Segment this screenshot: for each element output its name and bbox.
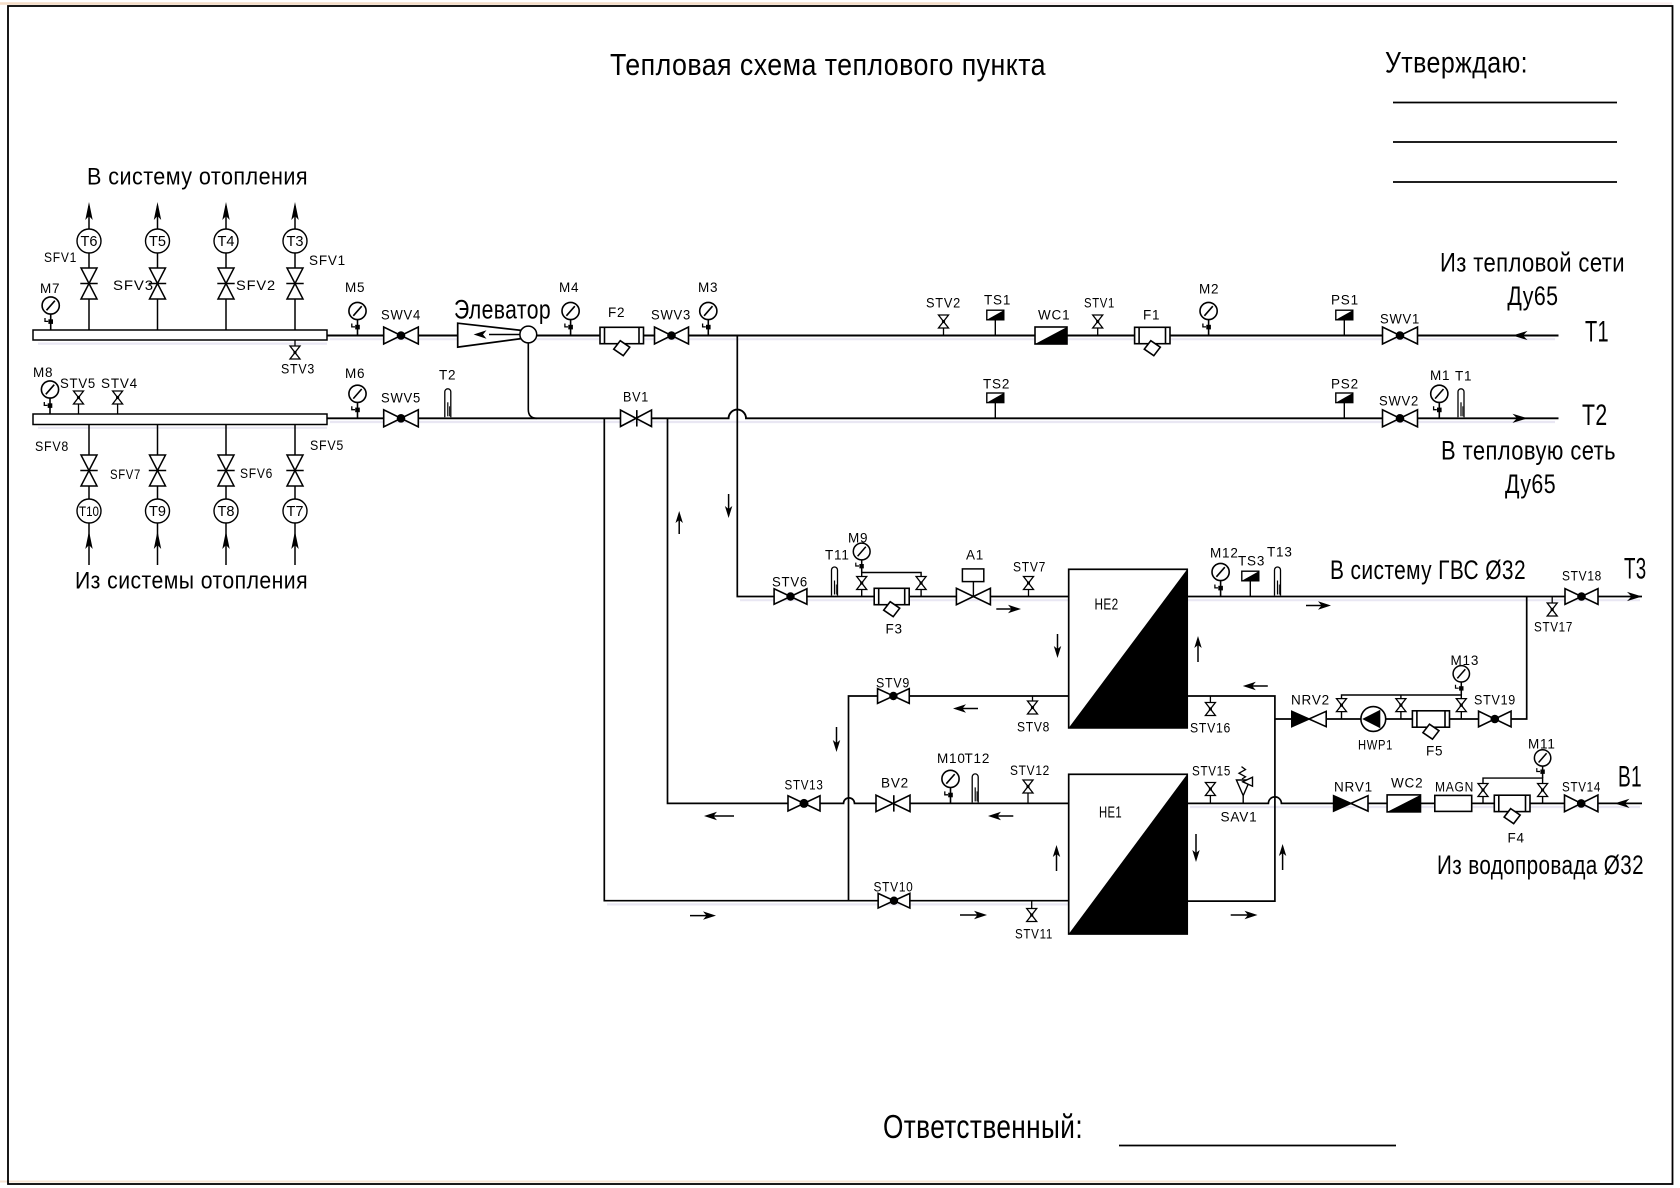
valve F4 bypass left small (1478, 784, 1488, 797)
svg-text:Ду65: Ду65 (1505, 469, 1556, 499)
valve F3 bypass right small (916, 577, 926, 590)
wire riser supply 1 (88, 206, 90, 330)
filter F1 (1135, 327, 1170, 355)
svg-text:NRV1: NRV1 (1334, 780, 1373, 795)
svg-text:NRV2: NRV2 (1291, 693, 1330, 708)
svg-text:SWV3: SWV3 (651, 308, 691, 323)
svg-text:SFV7: SFV7 (110, 467, 141, 482)
valve SFV riser return 3 (217, 455, 234, 486)
svg-text:STV18: STV18 (1562, 569, 1602, 584)
wire riser supply 3 (225, 206, 227, 330)
svg-text:SFV1: SFV1 (309, 253, 346, 268)
valve F3 bypass left small (857, 577, 867, 590)
svg-text:PS1: PS1 (1331, 293, 1359, 308)
svg-text:T4: T4 (218, 233, 235, 250)
wire HE2 lower right to HE1 right (1187, 696, 1275, 901)
filter F4 (1494, 795, 1530, 823)
filter F2 (600, 327, 644, 355)
sensor PS1 (1336, 310, 1353, 335)
svg-text:T10: T10 (79, 503, 99, 519)
valve STV8 small (1017, 696, 1050, 735)
svg-text:Ответственный:: Ответственный: (883, 1108, 1083, 1145)
svg-text:TS3: TS3 (1238, 554, 1265, 569)
svg-text:M10: M10 (937, 751, 966, 766)
gauge M4 (562, 302, 579, 335)
svg-text:STV9: STV9 (876, 676, 910, 691)
valve F4 bypass right small (1538, 784, 1548, 797)
svg-text:SFV3: SFV3 (113, 278, 154, 293)
valve STV4 small (101, 376, 138, 414)
wire drop T2 to bottom line (604, 418, 1068, 900)
thermometer T8 (214, 499, 238, 523)
gauge M12 (1212, 563, 1229, 596)
manifold bar return (33, 414, 327, 425)
flow arrow right on bottom line 2 (960, 911, 987, 919)
svg-text:STV8: STV8 (1017, 720, 1050, 735)
svg-text:STV11: STV11 (1015, 927, 1053, 942)
svg-text:M8: M8 (33, 365, 53, 380)
wire T3 DHW supply out (1187, 596, 1642, 598)
svg-text:SWV1: SWV1 (1380, 312, 1420, 327)
thermometer T13 well (1275, 567, 1281, 596)
flow arrow B1 in (1615, 799, 1630, 808)
svg-text:T12: T12 (965, 751, 991, 766)
magnetic unit MAGN (1435, 780, 1474, 812)
svg-text:BV1: BV1 (623, 390, 649, 405)
valve BV1 (621, 390, 652, 427)
svg-text:T8: T8 (218, 503, 235, 520)
flow arrow up left of HE1 (1053, 845, 1060, 871)
flow arrow down on HE2 left drop (833, 727, 840, 752)
signature line 2 (1393, 141, 1617, 143)
thermometer T2 well (445, 389, 451, 417)
check valve NRV1 (1334, 796, 1368, 811)
svg-text:Из системы отопления: Из системы отопления (75, 568, 308, 595)
flow arrow T3 out (1627, 592, 1642, 601)
heat exchanger HE1 (1069, 774, 1188, 934)
valve BV2 (876, 776, 910, 812)
flow arrow up right of HE2 (1194, 636, 1201, 662)
svg-text:B1: B1 (1618, 760, 1642, 793)
wire HE2 lower left line (849, 696, 1069, 901)
svg-text:M3: M3 (698, 280, 718, 295)
wire riser return 4 (294, 425, 296, 566)
manifold bar supply (33, 330, 327, 340)
flow arrow T1 in (1513, 331, 1528, 340)
flow arrow up right of T2 drop (676, 511, 683, 534)
svg-text:M11: M11 (1528, 737, 1556, 752)
gauge M11 (1534, 750, 1550, 778)
svg-text:STV15: STV15 (1192, 764, 1231, 779)
pump HWP1 (1358, 707, 1393, 753)
svg-text:T5: T5 (149, 233, 166, 250)
valve STV16 small (1190, 696, 1231, 736)
valve STV2 small (926, 296, 961, 336)
flow arrow left before STV8 (953, 704, 978, 712)
svg-text:T2: T2 (439, 368, 456, 383)
wire riser supply 2 (157, 206, 159, 330)
thermometer T9 (146, 499, 170, 523)
safety valve SAV1 (1236, 767, 1252, 804)
wire riser return 2 (157, 425, 159, 566)
valve STV17 small (1534, 597, 1573, 635)
svg-text:SWV5: SWV5 (381, 391, 421, 406)
valve SFV riser supply 1 (80, 268, 97, 299)
thermometer T11 well (832, 567, 838, 596)
svg-text:M6: M6 (345, 366, 365, 381)
flow arrow T2 out (1513, 414, 1528, 423)
valve SFV riser supply 2 (149, 268, 166, 299)
svg-text:SFV5: SFV5 (310, 438, 344, 453)
valve SFV riser supply 4 (286, 268, 303, 299)
valve STV9 (876, 676, 910, 704)
wire pump bypass (1342, 695, 1462, 719)
thermometer T4 (214, 229, 238, 253)
svg-text:WC2: WC2 (1391, 776, 1423, 791)
svg-text:T13: T13 (1267, 545, 1293, 560)
svg-text:HE2: HE2 (1095, 597, 1119, 614)
wire drop T1 to DHW supply line (737, 336, 1068, 597)
gauge M3 (700, 302, 717, 335)
svg-text:В систему ГВС Ø32: В систему ГВС Ø32 (1330, 555, 1526, 585)
wire riser supply 4 (294, 206, 296, 330)
gauge M9 (853, 543, 870, 572)
valve pump bypass right small (1396, 699, 1406, 712)
svg-text:Утверждаю:: Утверждаю: (1385, 47, 1528, 80)
flow arrow up right of recirc drop (1279, 844, 1286, 870)
svg-text:SWV2: SWV2 (1379, 394, 1419, 409)
valve SFV riser return 1 (80, 455, 97, 486)
svg-text:WC1: WC1 (1038, 308, 1070, 323)
svg-text:MAGN: MAGN (1435, 780, 1474, 795)
thermometer T1 well (1458, 389, 1464, 417)
gauge M1 (1431, 385, 1448, 418)
svg-text:F5: F5 (1426, 744, 1443, 759)
thermometer T5 (146, 229, 170, 253)
svg-text:В тепловую сеть: В тепловую сеть (1441, 435, 1616, 465)
svg-text:M7: M7 (40, 281, 60, 296)
wire drop T2 to DHW return line (668, 418, 1069, 803)
valve STV13 (785, 778, 824, 812)
sensor TS1 (987, 310, 1004, 335)
svg-text:STV12: STV12 (1010, 763, 1050, 778)
valve STV10 (874, 880, 914, 909)
gauge M6 (349, 385, 366, 418)
flow arrow right after A1 (996, 605, 1021, 613)
filter F3 (874, 588, 909, 616)
gauge M10 (942, 770, 959, 803)
svg-text:HE1: HE1 (1099, 805, 1122, 822)
wire T2 with hop (327, 410, 1559, 419)
svg-text:STV7: STV7 (1013, 560, 1046, 575)
svg-text:F2: F2 (608, 305, 625, 320)
control valve A1 (956, 548, 990, 605)
svg-text:В систему отопления: В систему отопления (87, 164, 308, 191)
sensor TS2 (987, 393, 1004, 418)
flow arrow left after STV13 (704, 812, 734, 820)
wire F4 bypass (1483, 778, 1543, 803)
gauge M7 (42, 297, 59, 330)
wire B1 cold water line with hop (1187, 797, 1642, 804)
svg-text:STV14: STV14 (1562, 780, 1601, 795)
svg-text:F1: F1 (1143, 308, 1160, 323)
flow arrow down left of HE2 (1054, 634, 1061, 658)
valve SFV riser return 4 (286, 455, 303, 486)
check valve NRV2 (1292, 711, 1326, 726)
gauge M5 (349, 302, 366, 335)
svg-text:Ду65: Ду65 (1507, 281, 1558, 311)
svg-text:M13: M13 (1451, 653, 1480, 668)
svg-text:M12: M12 (1210, 546, 1239, 561)
thermometer T10 (77, 499, 101, 523)
wire elevator mixing drop (528, 343, 537, 418)
signature line 3 (1393, 181, 1617, 183)
valve SWV4 (381, 308, 421, 345)
thermometer T7 (283, 499, 307, 523)
svg-text:STV3: STV3 (281, 362, 315, 377)
valve M13 small (1456, 699, 1466, 712)
svg-text:M1: M1 (1430, 368, 1450, 383)
valve STV7 small (1013, 560, 1046, 597)
flow arrow right on T3 (1306, 601, 1331, 609)
svg-text:STV2: STV2 (926, 296, 961, 311)
svg-text:T2: T2 (1582, 399, 1608, 432)
flow arrow down right of HE1 (1192, 834, 1199, 862)
gauge M8 (41, 381, 58, 414)
valve SFV riser supply 3 (217, 268, 234, 299)
thermometer T12 well (972, 774, 978, 803)
thermometer T6 (77, 229, 101, 253)
svg-text:STV6: STV6 (772, 575, 808, 590)
valve STV6 (772, 575, 808, 605)
signature line 1 (1393, 102, 1617, 104)
svg-text:T11: T11 (825, 548, 850, 563)
svg-text:F3: F3 (886, 622, 903, 637)
svg-text:PS2: PS2 (1331, 377, 1359, 392)
flow arrow left toward HE2 return (1243, 682, 1268, 690)
responsible signature line (1119, 1145, 1396, 1147)
sensor TS3 (1242, 571, 1259, 596)
valve STV14 (1562, 780, 1601, 812)
valve STV11 small (1015, 901, 1053, 942)
svg-text:SFV1: SFV1 (44, 250, 77, 265)
valve STV1 small (1084, 296, 1115, 336)
svg-text:BV2: BV2 (881, 776, 909, 791)
valve SWV1 (1380, 312, 1420, 345)
svg-text:SFV8: SFV8 (35, 439, 69, 454)
valve STV18 (1562, 569, 1602, 605)
svg-text:T6: T6 (81, 233, 98, 250)
heat exchanger HE2 (1069, 569, 1188, 728)
valve STV19 (1474, 693, 1516, 727)
elevator (454, 294, 551, 347)
flow arrow down left of T1 drop (725, 494, 732, 518)
svg-text:STV19: STV19 (1474, 693, 1516, 708)
svg-text:T7: T7 (287, 503, 304, 520)
svg-text:STV16: STV16 (1190, 721, 1231, 736)
valve STV12 small (1010, 763, 1050, 803)
svg-text:SFV2: SFV2 (236, 278, 276, 293)
svg-text:A1: A1 (966, 548, 984, 563)
svg-text:M4: M4 (559, 280, 579, 295)
wire riser return 3 (225, 425, 227, 566)
valve STV15 small (1192, 764, 1231, 804)
svg-text:SFV6: SFV6 (240, 466, 273, 481)
svg-text:Из водопровада Ø32: Из водопровада Ø32 (1437, 850, 1644, 880)
gauge M13 (1453, 666, 1469, 695)
flow arrow right on bottom line 1 (690, 911, 716, 919)
valve STV5 small (60, 376, 96, 414)
valve SWV2 (1379, 394, 1419, 427)
svg-text:STV4: STV4 (101, 376, 138, 391)
flow arrow left before HE1 (988, 812, 1013, 820)
sensor PS2 (1336, 393, 1353, 418)
svg-text:T1: T1 (1585, 315, 1609, 348)
pipe shadows (38, 339, 1640, 904)
svg-text:M2: M2 (1199, 282, 1219, 297)
svg-text:Из тепловой сети: Из тепловой сети (1440, 247, 1625, 277)
wire riser return 1 (88, 425, 90, 566)
valve SWV3 (651, 308, 691, 345)
svg-text:SWV4: SWV4 (381, 308, 421, 323)
svg-text:TS2: TS2 (983, 377, 1010, 392)
svg-text:STV17: STV17 (1534, 620, 1573, 635)
svg-text:TS1: TS1 (984, 293, 1011, 308)
valve pump bypass left small (1337, 699, 1347, 712)
valve STV3 small (281, 340, 315, 377)
svg-text:T9: T9 (149, 503, 166, 520)
svg-text:F4: F4 (1508, 831, 1525, 846)
svg-text:STV13: STV13 (785, 778, 824, 793)
svg-text:M9: M9 (848, 531, 868, 546)
svg-text:Элеватор: Элеватор (454, 294, 551, 324)
svg-text:Тепловая схема теплового пункт: Тепловая схема теплового пункта (610, 47, 1046, 82)
wire T1 (327, 335, 1559, 337)
filter F5 (1412, 711, 1449, 739)
wire recirculation riser and pump line (1275, 597, 1527, 720)
svg-text:T3: T3 (287, 233, 304, 250)
svg-text:STV1: STV1 (1084, 296, 1115, 311)
flow arrow right of HE1 outlet (1231, 911, 1258, 919)
valve SWV5 (381, 391, 421, 427)
valve SFV riser return 2 (149, 455, 166, 486)
wire F3 bypass (862, 573, 921, 598)
svg-text:STV5: STV5 (60, 376, 96, 391)
svg-text:SAV1: SAV1 (1221, 810, 1258, 825)
svg-text:M5: M5 (345, 280, 365, 295)
svg-text:STV10: STV10 (874, 880, 914, 895)
meter WC1 (1035, 327, 1067, 344)
gauge M2 (1200, 302, 1217, 335)
thermometer T3 (283, 229, 307, 253)
svg-text:T1: T1 (1455, 369, 1472, 384)
svg-text:T3: T3 (1624, 552, 1647, 585)
meter WC2 (1387, 795, 1420, 812)
svg-text:HWP1: HWP1 (1358, 738, 1393, 753)
